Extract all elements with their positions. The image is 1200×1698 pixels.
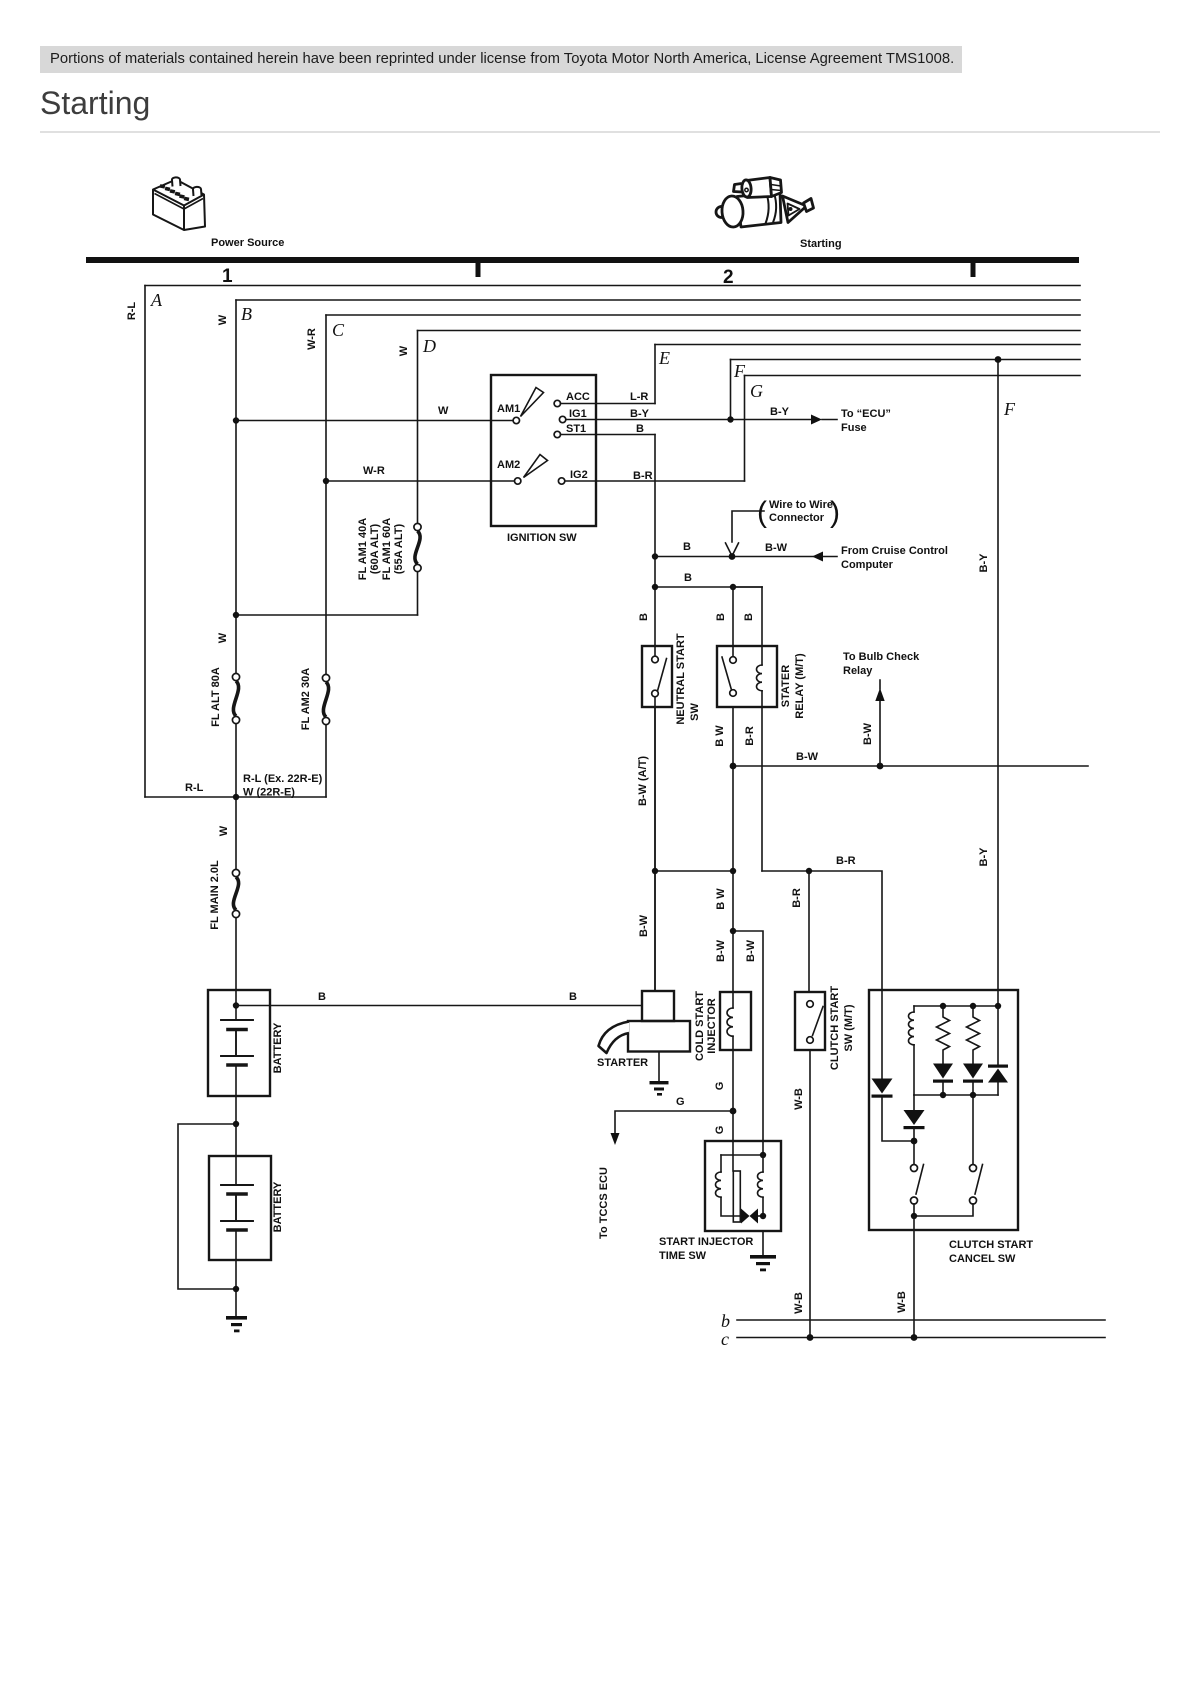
svg-text:G: G [676, 1096, 685, 1108]
svg-text:B W: B W [714, 725, 726, 747]
wire ACC L-R [561, 403, 656, 405]
time switch inner rail [721, 1154, 763, 1156]
starter relay coil [756, 665, 762, 691]
clutch start sw (M/T) box [795, 992, 825, 1050]
fusible link FL AM2 30A [322, 674, 329, 724]
diode D2 [913, 1095, 915, 1110]
svg-text:1: 1 [222, 266, 233, 287]
svg-text:C: C [332, 320, 345, 340]
cancel sw coil [913, 1006, 915, 1012]
svg-text:L-R: L-R [630, 391, 648, 403]
svg-text:b: b [721, 1311, 730, 1331]
clutch start cancel switch box [869, 990, 1018, 1230]
svg-text:To Bulb Check: To Bulb Check [843, 651, 920, 663]
wire parallel bypass loop [178, 1124, 236, 1289]
wire B vertical drop W [235, 300, 237, 1020]
junction contact x right coil [760, 1213, 766, 1219]
svg-text:COLD START: COLD START [694, 991, 706, 1061]
contact ST1 [554, 431, 560, 437]
svg-text:A: A [150, 290, 163, 310]
starter relay contacts [730, 657, 737, 664]
svg-text:SW: SW [689, 703, 701, 721]
junction W-B M/T x net c [807, 1334, 814, 1341]
svg-text:FL MAIN 2.0L: FL MAIN 2.0L [209, 860, 221, 930]
cancel sw inner top rail [914, 1005, 998, 1007]
junction G branch [730, 1108, 737, 1115]
net line b [737, 1319, 1105, 1321]
svg-text:(: ( [757, 496, 767, 529]
svg-text:(55A ALT): (55A ALT) [393, 524, 405, 575]
svg-text:Fuse: Fuse [841, 422, 867, 434]
wire-to-wire connector callout leader [732, 511, 764, 542]
fusible link FL MAIN 2.0L [232, 869, 239, 917]
wire B horizontal [236, 299, 1080, 301]
junction W-B cancel x net c [911, 1334, 918, 1341]
junction F x B-Y [727, 416, 733, 422]
svg-text:B-R: B-R [791, 888, 803, 908]
svg-text:B: B [683, 541, 691, 553]
wire D horizontal [418, 330, 1081, 332]
battery pictograph icon [153, 177, 205, 230]
junction B-R branch [806, 868, 812, 874]
svg-text:AM2: AM2 [497, 459, 520, 471]
wire time switch to ground [762, 1231, 764, 1255]
starter motor pictograph icon [716, 178, 814, 228]
svg-text:E: E [658, 348, 670, 368]
wire starter to ground [658, 1052, 660, 1082]
ignition switch box [491, 375, 596, 526]
junction link right [730, 868, 736, 874]
arrow to TCCS ECU [611, 1133, 620, 1145]
wire E horizontal [655, 344, 1080, 346]
junction B W col x bulb line [730, 763, 737, 770]
ground symbol time switch [750, 1255, 776, 1271]
arrow to bulb check relay [879, 680, 881, 766]
junction B x D-return [233, 612, 239, 618]
wire W-B cancel sw output [913, 1216, 915, 1338]
contact AM2 [515, 478, 521, 484]
cancel sw bottom link [914, 1204, 973, 1216]
svg-text:B-W (A/T): B-W (A/T) [637, 756, 649, 806]
svg-text:From Cruise Control: From Cruise Control [841, 545, 948, 557]
switch lever AM2 [524, 455, 548, 478]
svg-text:B-W: B-W [745, 939, 757, 962]
svg-text:B: B [638, 613, 650, 621]
svg-text:W-R: W-R [363, 465, 385, 477]
svg-text:B W: B W [715, 888, 727, 910]
wire B-R to clutch switches [762, 871, 882, 990]
contact ACC [554, 400, 560, 406]
svg-text:W: W [218, 825, 230, 836]
arrow from cruise control [812, 552, 823, 562]
junction B x W-to-AM1 [233, 417, 239, 423]
svg-text:ACC: ACC [566, 391, 590, 403]
wire relay contact output B W [732, 707, 734, 992]
starter pinion hook [599, 1022, 630, 1054]
wire battery1 bottom to junction [235, 1065, 237, 1124]
svg-text:Starting: Starting [800, 238, 842, 250]
wire G to TCCS ECU [615, 1111, 733, 1133]
junction B dist left [652, 584, 658, 590]
svg-text:Connector: Connector [769, 512, 825, 524]
cancel sw lower rail [914, 1094, 998, 1096]
junction ST1 column x cruise wire [652, 553, 658, 559]
starter relay blade [722, 657, 732, 690]
junction rail x resistor2 [970, 1003, 976, 1009]
svg-text:B: B [569, 991, 577, 1003]
wire E vertical to ACC [654, 345, 656, 404]
net line c [737, 1337, 1105, 1339]
corner B to coil [733, 586, 762, 588]
svg-text:B-Y: B-Y [978, 847, 990, 867]
bus tick 1 [476, 263, 481, 277]
svg-text:Power Source: Power Source [211, 237, 284, 249]
cold start injector coil [732, 992, 734, 1008]
junction B dist at relay contact [730, 584, 736, 590]
ground symbol battery [226, 1316, 247, 1332]
svg-text:W: W [398, 345, 410, 356]
svg-text:B-Y: B-Y [630, 408, 650, 420]
svg-text:SW (M/T): SW (M/T) [843, 1004, 855, 1051]
svg-text:R-L: R-L [185, 782, 204, 794]
diode D4 [963, 1064, 983, 1079]
neutral start switch blade [658, 659, 667, 692]
wire B distribution to relay [655, 586, 762, 588]
wire G horizontal [745, 375, 1081, 377]
svg-text:STATER: STATER [780, 665, 792, 707]
wire relay contact feed [732, 587, 734, 657]
wire B-W branch to time switch [733, 931, 763, 1155]
starter relay box [717, 646, 777, 707]
svg-text:CLUTCH START: CLUTCH START [829, 986, 841, 1070]
time switch right coil [762, 1155, 764, 1172]
time switch left coil [720, 1155, 722, 1172]
start injector time switch box [705, 1141, 781, 1231]
svg-text:Computer: Computer [841, 559, 894, 571]
svg-text:G: G [750, 381, 763, 401]
svg-text:B: B [715, 613, 727, 621]
svg-text:B-W: B-W [765, 542, 788, 554]
wire G vertical to IG2 [744, 376, 746, 482]
svg-text:START INJECTOR: START INJECTOR [659, 1236, 753, 1248]
junction battery B output [233, 1002, 239, 1008]
time switch contact points [741, 1209, 750, 1224]
svg-text:FL AM1 40A: FL AM1 40A [357, 518, 369, 580]
wire A vertical drop R-L [144, 286, 146, 798]
page title [40, 87, 150, 119]
svg-text:W: W [217, 632, 229, 643]
contact AM1 [513, 417, 519, 423]
fusible link FL AM1 40A [414, 523, 421, 571]
wire C horizontal [326, 314, 1080, 316]
svg-text:D: D [422, 336, 436, 356]
divider rule [40, 131, 1160, 133]
contact IG2 [558, 478, 564, 484]
junction lower rail x D3 [940, 1092, 946, 1098]
svg-text:(60A ALT): (60A ALT) [369, 524, 381, 575]
svg-text:B: B [636, 423, 644, 435]
wire battery2 bottom [235, 1231, 237, 1317]
junction B x R-L [233, 794, 239, 800]
wire B-W to bulb check relay [733, 765, 1088, 767]
svg-text:IG2: IG2 [570, 469, 588, 481]
svg-text:Relay: Relay [843, 665, 873, 677]
ground symbol starter [650, 1081, 669, 1096]
battery 2 cells [221, 1185, 253, 1230]
svg-text:CANCEL SW: CANCEL SW [949, 1253, 1016, 1265]
cancel switch SW2 [972, 1095, 974, 1164]
wire W-R to AM2 [326, 480, 515, 482]
diode D1 on B-R feed [881, 990, 883, 1079]
svg-text:Wire to Wire: Wire to Wire [769, 499, 833, 511]
svg-text:FL AM1 60A: FL AM1 60A [381, 518, 393, 580]
license gray bar [40, 46, 962, 73]
wire D vertical drop W [417, 331, 419, 616]
junction rail x resistor1 [940, 1003, 946, 1009]
svg-text:R-L (Ex. 22R-E): R-L (Ex. 22R-E) [243, 773, 323, 785]
svg-text:B-Y: B-Y [770, 406, 790, 418]
svg-text:B: B [318, 991, 326, 1003]
arrow to ECU fuse [811, 415, 822, 425]
svg-text:INJECTOR: INJECTOR [706, 998, 718, 1053]
svg-text:STARTER: STARTER [597, 1057, 648, 1069]
svg-text:IGNITION SW: IGNITION SW [507, 532, 577, 544]
bus bar [86, 257, 1079, 263]
wire A horizontal [145, 285, 1080, 287]
junction branch [730, 928, 736, 934]
svg-text:B-Y: B-Y [978, 553, 990, 573]
junction bypass bottom [233, 1286, 239, 1292]
svg-text:W-B: W-B [793, 1292, 805, 1314]
cold start injector box [720, 992, 751, 1050]
starter solenoid box [642, 991, 674, 1021]
wire D return to B [236, 614, 418, 616]
svg-text:B-W: B-W [862, 722, 874, 745]
svg-text:G: G [714, 1126, 726, 1135]
wire F horizontal [731, 359, 1081, 361]
wire W to AM1 [236, 420, 513, 422]
svg-text:B: B [743, 613, 755, 621]
svg-text:BATTERY: BATTERY [272, 1181, 284, 1232]
svg-text:To TCCS ECU: To TCCS ECU [598, 1167, 610, 1239]
battery 1 box [208, 990, 270, 1096]
svg-text:ST1: ST1 [566, 423, 586, 435]
wire F B-Y vertical drop [997, 360, 999, 1007]
svg-text:W: W [438, 405, 449, 417]
junction link left [652, 868, 658, 874]
switch lever AM1 [521, 388, 544, 417]
neutral start switch contacts [652, 656, 659, 663]
wire B battery to starter [236, 1005, 642, 1007]
wire ST1 B vertical drop [654, 435, 656, 992]
wire W-B below clutch sw [809, 1050, 811, 1338]
wire C vertical drop W-R [325, 315, 327, 797]
fusible link FL ALT 80A [232, 673, 239, 723]
svg-text:FL AM2 30A: FL AM2 30A [300, 668, 312, 730]
junction bottom link [911, 1213, 917, 1219]
bus tick 2 [971, 263, 976, 277]
svg-text:W (22R-E): W (22R-E) [243, 787, 295, 799]
clutch start sw (M/T) blade [813, 1007, 824, 1036]
svg-text:B-W: B-W [638, 914, 650, 937]
wire B-W (A/T) below neutral start sw [654, 707, 656, 991]
svg-text:F: F [1003, 399, 1016, 419]
svg-text:G: G [714, 1082, 726, 1091]
svg-text:NEUTRAL START: NEUTRAL START [675, 633, 687, 725]
svg-text:B: B [684, 572, 692, 584]
contact IG1 [559, 416, 565, 422]
junction connector on cruise wire [729, 553, 736, 560]
junction F line [995, 356, 1002, 363]
neutral start switch box [642, 646, 672, 707]
resistor R2 [967, 1006, 980, 1063]
svg-text:CLUTCH START: CLUTCH START [949, 1239, 1033, 1251]
cancel switch SW1 [911, 1165, 918, 1172]
wire relay coil feed [761, 587, 763, 665]
svg-text:B-W: B-W [715, 939, 727, 962]
svg-text:c: c [721, 1329, 729, 1349]
resistor R1 [937, 1006, 950, 1063]
battery 2 box [209, 1156, 271, 1260]
svg-text:): ) [830, 496, 840, 529]
svg-text:W-B: W-B [793, 1088, 805, 1110]
junction C x W-R-to-AM2 [323, 478, 329, 484]
junction D1/D2 [911, 1138, 918, 1145]
svg-text:B-R: B-R [633, 470, 653, 482]
svg-text:IG1: IG1 [569, 408, 587, 420]
svg-text:BATTERY: BATTERY [272, 1022, 284, 1073]
diode D5 upward [997, 1006, 999, 1065]
wire R-L bottom [145, 796, 326, 798]
starter motor body [628, 1021, 690, 1052]
svg-text:AM1: AM1 [497, 403, 520, 415]
junction rail x B-Y feed [995, 1003, 1001, 1009]
wire G below injector [732, 1050, 734, 1171]
wire battery1 to battery2 [235, 1124, 237, 1185]
svg-text:B-R: B-R [836, 855, 856, 867]
wire A/T-B W link [655, 870, 733, 872]
wire relay coil output B-R [761, 707, 763, 871]
wire ST1 B [561, 434, 656, 436]
wire B-W from cruise control [655, 556, 837, 558]
svg-text:B: B [241, 304, 252, 324]
svg-text:FL ALT 80A: FL ALT 80A [210, 667, 222, 727]
clutch start sw (M/T) contacts [807, 1001, 814, 1008]
svg-text:B-W: B-W [796, 751, 819, 763]
time switch bimetal strip [733, 1171, 740, 1222]
svg-text:To “ECU”: To “ECU” [841, 408, 891, 420]
junction batteries parallel top [233, 1121, 239, 1127]
junction rail x right coil [760, 1152, 766, 1158]
svg-text:TIME SW: TIME SW [659, 1250, 707, 1262]
wire IG1 B-Y [566, 419, 811, 421]
svg-text:W-R: W-R [306, 328, 318, 350]
svg-text:W: W [217, 314, 229, 325]
wire IG2 B-R [565, 480, 745, 482]
svg-text:RELAY (M/T): RELAY (M/T) [794, 653, 806, 719]
junction lower rail x D4 [970, 1092, 976, 1098]
battery 1 cells [221, 1020, 253, 1065]
svg-text:W-B: W-B [896, 1291, 908, 1313]
junction bulb arrow [877, 763, 884, 770]
wire-to-wire connector chevron [726, 543, 739, 556]
diode D3 [933, 1064, 953, 1079]
svg-text:R-L: R-L [126, 302, 138, 321]
clutch start sw (M/T) branch wire [808, 871, 810, 992]
wire F vertical to IG1 [730, 360, 732, 420]
svg-text:B-R: B-R [744, 726, 756, 746]
